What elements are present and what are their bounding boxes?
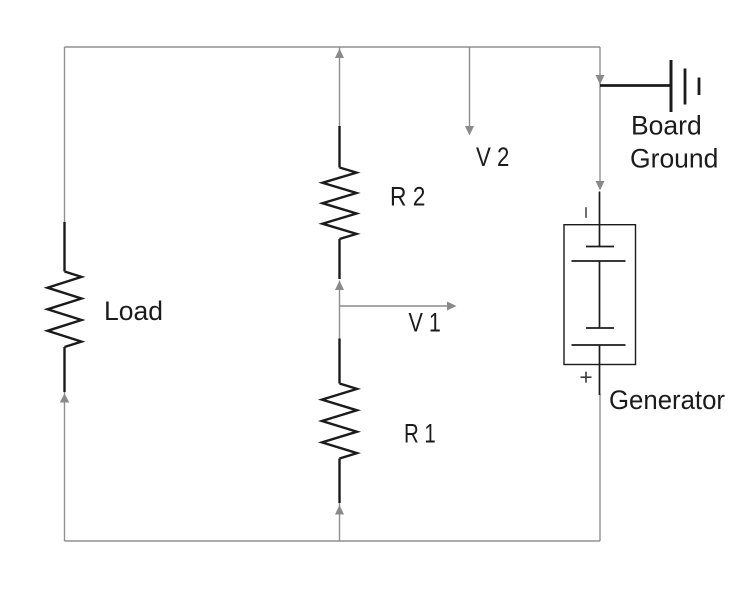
battery plate short 2 (586, 327, 614, 329)
wire bottom (64.5,541)-(600,541) (65, 540, 601, 542)
wire left lower (64.5,388)-(64.5,541) (64, 388, 66, 541)
ground lead wire (600, 84, 670, 87)
battery plate long 1 (572, 260, 626, 262)
generator lead bottom (599, 345, 601, 395)
svg-text:R 2: R 2 (390, 182, 425, 212)
resistor R2 (323, 126, 357, 279)
resistor R1 (322, 339, 357, 504)
generator box U1 (564, 225, 636, 365)
arrow up middle node (335, 281, 344, 291)
svg-text:Generator: Generator (609, 385, 725, 415)
wire middle upper (339.5,47)-(339.5,127) (339, 47, 341, 127)
battery plate short 1 (586, 246, 614, 248)
probe arrow V1 (340, 302, 457, 311)
wire right upper (600,47)-(600,181.5) (599, 47, 601, 182)
ground bar 2 (684, 69, 687, 105)
arrow up middle bottom (335, 505, 344, 515)
svg-text:Board: Board (631, 111, 702, 141)
svg-text:R 1: R 1 (404, 419, 436, 449)
generator internal lead middle (599, 261, 601, 328)
arrow down right generator (596, 181, 605, 191)
battery plate long 2 (572, 344, 626, 346)
resistor Load (48, 222, 82, 392)
arrow up left branch (60, 394, 70, 403)
probe arrow V2 (465, 47, 474, 136)
arrow up middle top (335, 49, 344, 59)
svg-text:Ground: Ground (630, 144, 718, 174)
arrow down right top (596, 75, 605, 85)
ground bar 3 (698, 78, 701, 96)
svg-text:V 1: V 1 (409, 308, 441, 338)
svg-text:Load: Load (104, 296, 163, 326)
ground bar 1 (670, 60, 673, 112)
svg-text:V 2: V 2 (476, 142, 509, 172)
wire left upper (64.5,47)-(64.5,222.5) (64, 47, 66, 223)
generator minus terminal label (585, 207, 587, 218)
generator plus terminal label (581, 372, 592, 383)
wire middle lower (339.5,503)-(339.5,541) (339, 503, 341, 541)
wire middle node segment (339.5,280.5)-(339.5,339) (339, 281, 341, 340)
wire right lower (600,394)-(600,541) (599, 394, 601, 541)
wire top (64.5,47)-(600,47) (65, 46, 601, 48)
generator internal lead top (599, 192, 601, 247)
label Board Ground (630, 111, 718, 174)
